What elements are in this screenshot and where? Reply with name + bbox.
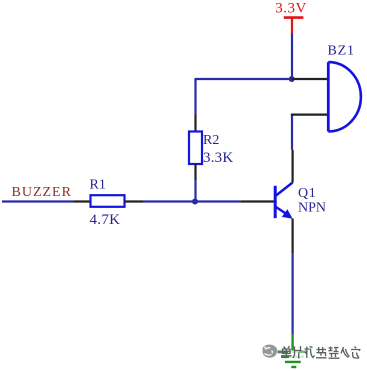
wire emitter to ground xyxy=(292,253,294,334)
watermark halo xyxy=(279,346,359,360)
svg-text:BZ1: BZ1 xyxy=(328,44,355,59)
pin Q1 base xyxy=(240,200,275,202)
watermark text 单片机与嵌入式 (drawn strokes) xyxy=(281,346,361,359)
wire R1 to junction B to Q1 base pin xyxy=(143,200,240,202)
pin R1 left xyxy=(73,200,90,202)
pin R2 bottom xyxy=(194,164,196,180)
wire vertical corner down to R2 xyxy=(194,78,196,115)
power net 3.3V label xyxy=(275,1,307,17)
svg-text:NPN: NPN xyxy=(298,201,326,216)
wire R2 to junction B xyxy=(194,180,196,202)
pin BZ1 lower (pin2) xyxy=(291,113,328,115)
svg-text:3.3K: 3.3K xyxy=(203,150,233,166)
node B junction dot xyxy=(192,199,198,205)
pin Q1 collector xyxy=(292,150,294,183)
wire buzzer pin2 corner to collector xyxy=(291,114,293,150)
wire BUZZER to R1 xyxy=(2,200,73,202)
node A junction dot xyxy=(289,76,295,82)
svg-text:R1: R1 xyxy=(90,178,106,193)
transistor Q1 xyxy=(275,183,326,219)
svg-text:3.3V: 3.3V xyxy=(275,1,307,17)
svg-text:4.7K: 4.7K xyxy=(90,212,121,228)
ground green visible through watermark xyxy=(278,345,308,357)
pin R1 right xyxy=(125,200,144,202)
pin Q1 emitter xyxy=(292,219,294,254)
buzzer BZ1 xyxy=(328,44,361,132)
watermark logo circle xyxy=(262,344,285,360)
ground xyxy=(278,334,308,367)
wire power to junction A xyxy=(291,34,293,80)
svg-text:R2: R2 xyxy=(203,133,219,148)
pin BZ1 upper (pin1) xyxy=(292,78,329,80)
pin R2 top xyxy=(194,115,196,132)
power bar symbol 3.3V xyxy=(284,18,304,34)
net label BUZZER xyxy=(12,185,72,200)
resistor R2 xyxy=(189,132,233,167)
wire top horizontal (junction A to R2 corner) xyxy=(196,78,292,80)
resistor R1 xyxy=(90,178,125,229)
svg-text:Q1: Q1 xyxy=(298,186,317,201)
svg-text:BUZZER: BUZZER xyxy=(12,185,72,200)
